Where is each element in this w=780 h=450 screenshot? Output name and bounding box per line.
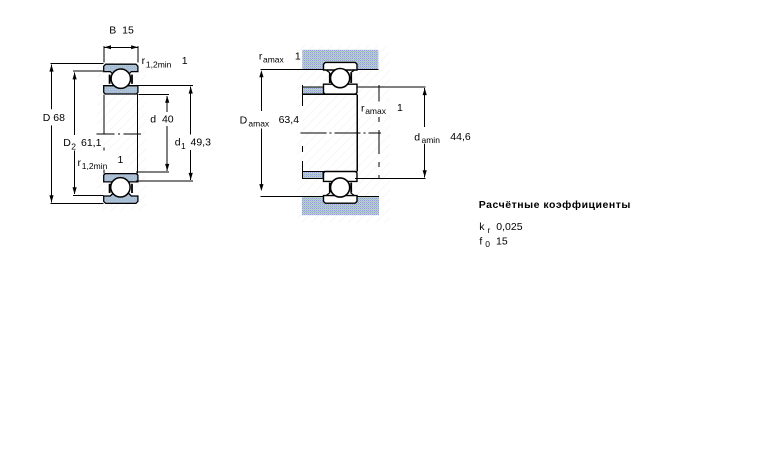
shaft shoulder strip bottom (blue) — [302, 172, 323, 179]
shaft shoulder strip top (blue) — [302, 87, 323, 94]
label r 1,2min 1 (lower) — [76, 151, 127, 170]
outer ring (bottom, white) — [324, 196, 358, 204]
centerline right view — [300, 132, 381, 134]
dimension D 68: extension lines — [51, 62, 104, 64]
centerline left view — [97, 133, 141, 135]
svg-text:D: D — [63, 137, 71, 149]
label d1 49,3 — [174, 135, 216, 151]
svg-text:0: 0 — [485, 239, 490, 249]
svg-text:63,4: 63,4 — [279, 114, 300, 126]
svg-text:1: 1 — [118, 154, 124, 166]
housing break line (dash-dot, right) — [378, 85, 380, 179]
dimension d1: line and arrows — [190, 87, 192, 180]
svg-text:d: d — [175, 137, 181, 149]
svg-text:49,3: 49,3 — [191, 137, 212, 149]
ball (top) — [111, 69, 130, 88]
housing band top (blue) — [302, 50, 378, 70]
svg-text:k: k — [479, 221, 485, 233]
bore side line left (segments) — [103, 94, 105, 133]
label d 40 — [149, 112, 177, 126]
svg-text:15: 15 — [496, 235, 508, 247]
svg-text:amax: amax — [365, 106, 387, 116]
outer ring (top, blue) — [104, 64, 138, 75]
dimension d1 49,3: extension lines — [138, 84, 193, 86]
svg-text:44,6: 44,6 — [450, 131, 471, 143]
dimension D_amax: line and arrows — [260, 72, 262, 111]
dimension d 40: extension lines — [138, 94, 169, 96]
svg-text:1: 1 — [182, 55, 188, 67]
ball (bottom) — [111, 178, 130, 197]
svg-text:Расчётные коэффициенты: Расчётные коэффициенты — [479, 199, 631, 211]
inner ring (bottom, blue) — [104, 174, 138, 182]
raceway shoulder ticks (top) — [109, 75, 111, 84]
shaft seat (bore) lines — [302, 93, 357, 95]
svg-text:61,1: 61,1 — [81, 137, 102, 149]
outer ring (bottom, blue) — [104, 192, 138, 203]
svg-text:r: r — [488, 225, 491, 235]
svg-text:1: 1 — [397, 102, 403, 114]
dimension B: extension lines — [103, 46, 105, 63]
raceway shoulder ticks — [329, 183, 331, 193]
svg-text:D 68: D 68 — [43, 112, 65, 124]
svg-text:1,2min: 1,2min — [82, 161, 108, 171]
label r_amax 1 (middle) — [360, 102, 404, 117]
bore side line right — [137, 94, 139, 174]
svg-text:1,2min: 1,2min — [146, 60, 172, 70]
dimension d: line and arrows — [166, 96, 168, 171]
svg-text:1: 1 — [181, 141, 186, 151]
svg-text:d 40: d 40 — [150, 114, 174, 126]
label D2 61,1 — [62, 135, 102, 151]
svg-text:1: 1 — [295, 50, 301, 62]
svg-text:D: D — [240, 115, 248, 127]
svg-text:2: 2 — [71, 142, 76, 152]
inner ring (top, blue) — [104, 86, 138, 94]
outer ring (top, white) — [324, 62, 358, 70]
ball (top) — [331, 69, 350, 88]
label d_amin 44,6 — [413, 129, 472, 144]
bearing section top (white) — [324, 62, 358, 94]
housing band bottom (blue) — [302, 197, 379, 215]
faint hatch block behind left bearing view — [97, 59, 146, 211]
svg-text:0,025: 0,025 — [496, 221, 522, 233]
top half — [104, 64, 138, 94]
bearing section bottom (white, mirror) — [324, 172, 358, 204]
outer ring groove shoulder marks — [326, 70, 330, 73]
faint hatch block behind right mounting view — [297, 45, 390, 223]
ball (bottom) — [331, 178, 350, 197]
inner ring (bottom, white) — [324, 172, 358, 182]
label D 68 — [41, 109, 66, 125]
dimension d_amin: extension lines — [358, 86, 426, 88]
housing bore edge lines + D_amax extension lines — [260, 68, 323, 70]
raceway shoulder ticks (bottom) — [109, 184, 111, 193]
svg-text:f: f — [479, 235, 482, 247]
svg-text:d: d — [414, 131, 420, 143]
svg-text:amax: amax — [248, 118, 270, 128]
svg-text:B 15: B 15 — [109, 25, 134, 37]
dimension B: line and arrows — [104, 46, 138, 48]
raceway shoulder ticks — [329, 73, 331, 83]
bottom half (mirror) — [104, 174, 138, 204]
dimension D2: line and arrows — [74, 72, 76, 194]
dimension D2 61,1: extension lines — [73, 70, 103, 72]
dimension D 68: line and arrows — [51, 65, 53, 203]
inner ring (top, white) — [324, 84, 358, 94]
outer ring groove shoulder marks — [326, 193, 330, 196]
dimension d_amin: line and arrows — [424, 88, 426, 127]
shaft break line (dash-dot, left) — [301, 85, 303, 178]
shaft end face line — [356, 94, 358, 171]
svg-text:amin: amin — [422, 135, 441, 145]
label D_amax 63,4 — [239, 112, 303, 128]
svg-text:amax: amax — [263, 55, 285, 65]
